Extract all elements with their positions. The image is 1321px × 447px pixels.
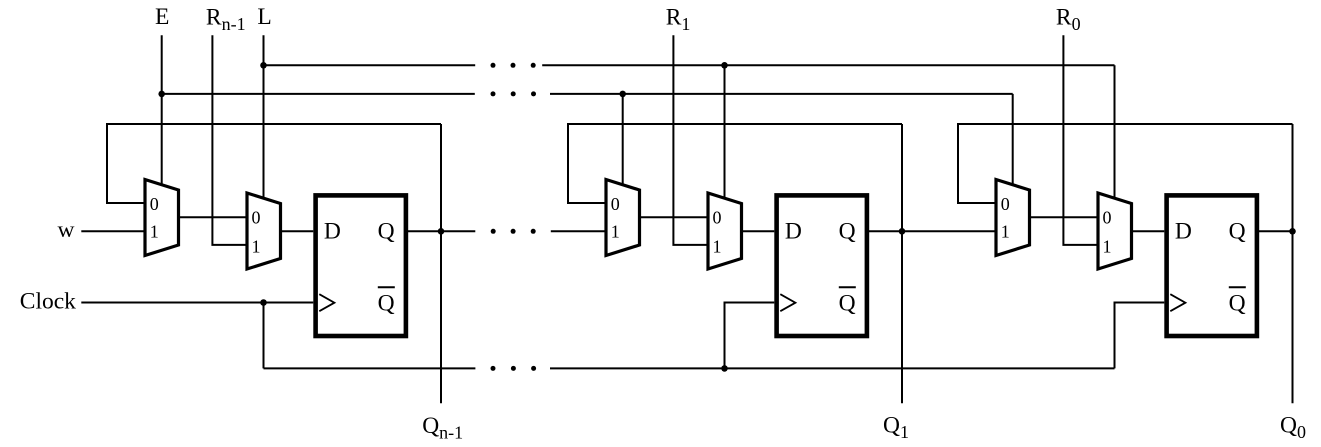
wire load-mux output to D stage3 (Q_0) bbox=[1132, 230, 1165, 232]
wire enable-mux output to load-mux stage1 (Q_n-1) bbox=[179, 216, 248, 218]
svg-text:0: 0 bbox=[150, 194, 159, 214]
svg-text:1: 1 bbox=[611, 221, 620, 241]
svg-text:D: D bbox=[324, 219, 341, 245]
wire Clock drop to distribution bbox=[263, 303, 265, 369]
svg-text:Q: Q bbox=[378, 291, 395, 317]
wire load-mux output to D stage2 (Q_1) bbox=[742, 230, 775, 232]
wire L bus segment right bbox=[542, 64, 1114, 66]
svg-text:D: D bbox=[1175, 219, 1192, 245]
D flip-flop stage2 (Q_1) bbox=[777, 195, 867, 336]
clock chevron stage3 (Q_0) bbox=[1170, 294, 1185, 311]
wire E bus drop to mux select stage3 bbox=[1012, 94, 1014, 186]
mux load stage3 (Q_0) bbox=[1098, 193, 1132, 269]
wire Q output vertical stage3 (Q_0) bbox=[1292, 124, 1294, 403]
wire R vertical stage3 (Q_0) bbox=[1063, 35, 1098, 245]
wire L bus drop to mux select stage3 bbox=[1114, 65, 1116, 199]
wire clock distribution right bbox=[550, 367, 1115, 369]
wire E bus segment left bbox=[162, 93, 475, 95]
svg-text:1: 1 bbox=[1001, 221, 1010, 241]
wire E input stub bbox=[161, 35, 163, 186]
D flip-flop stage1 (Q_n-1) bbox=[316, 195, 406, 336]
wire L bus segment left bbox=[264, 64, 476, 66]
wire clock riser stage3 bbox=[1115, 303, 1165, 369]
svg-text:1: 1 bbox=[150, 221, 159, 241]
node L junction on L bus bbox=[260, 62, 267, 69]
svg-text:0: 0 bbox=[1103, 208, 1112, 228]
svg-text:0: 0 bbox=[713, 208, 722, 228]
ellipsis dots E bus bbox=[491, 91, 496, 96]
node E bus to stage2 select bbox=[619, 91, 626, 98]
node L bus to stage2 select bbox=[721, 62, 728, 69]
wire enable-mux output to load-mux stage2 (Q_1) bbox=[640, 216, 709, 218]
wire w input bbox=[81, 230, 145, 232]
wire clock distribution left bbox=[264, 367, 476, 369]
wire clock riser stage2 bbox=[725, 303, 775, 369]
wire L bus drop to mux select stage2 bbox=[724, 65, 726, 199]
ellipsis dots Q chain bbox=[491, 229, 496, 234]
wire enable-mux output to load-mux stage3 (Q_0) bbox=[1030, 216, 1099, 218]
wire Clock input bbox=[81, 302, 313, 304]
mux load stage1 (Q_n-1) bbox=[247, 193, 281, 269]
svg-text:0: 0 bbox=[1001, 194, 1010, 214]
svg-text:E: E bbox=[155, 4, 169, 30]
overbar of Qbar stage1 (Q_n-1) bbox=[378, 286, 395, 288]
wire Q output stage2 (Q_1) bbox=[867, 230, 996, 232]
wire R vertical stage2 (Q_1) bbox=[673, 35, 708, 245]
wire feedback from Q to mux 0 input stage2 (Q_1) bbox=[568, 124, 902, 203]
mux load stage2 (Q_1) bbox=[708, 193, 742, 269]
wire E bus segment right bbox=[550, 93, 1013, 95]
wire Q output vertical stage1 (Q_n-1) bbox=[440, 124, 442, 403]
wire E bus drop to mux select stage2 bbox=[622, 94, 624, 186]
svg-text:1: 1 bbox=[252, 237, 261, 257]
svg-text:0: 0 bbox=[611, 194, 620, 214]
overbar of Qbar stage3 (Q_0) bbox=[1229, 286, 1246, 288]
svg-text:Q: Q bbox=[1229, 291, 1246, 317]
svg-text:0: 0 bbox=[252, 208, 261, 228]
wire feedback from Q to mux 0 input stage3 (Q_0) bbox=[958, 124, 1293, 203]
wire Q output stage3 (Q_0) bbox=[1257, 230, 1292, 232]
wire Q chain gap right end bbox=[551, 230, 606, 232]
svg-text:Q: Q bbox=[839, 291, 856, 317]
svg-text:1: 1 bbox=[713, 237, 722, 257]
wire R_n-1 vertical bbox=[212, 35, 247, 245]
mux shift/enable stage2 (Q_1) bbox=[606, 180, 640, 256]
svg-text:Q: Q bbox=[1229, 219, 1246, 245]
mux shift/enable stage3 (Q_0) bbox=[996, 180, 1030, 256]
clock chevron stage1 (Q_n-1) bbox=[319, 294, 334, 311]
svg-text:Q: Q bbox=[839, 219, 856, 245]
D flip-flop stage3 (Q_0) bbox=[1167, 195, 1257, 336]
svg-text:1: 1 bbox=[1103, 237, 1112, 257]
wire Q output vertical stage2 (Q_1) bbox=[901, 124, 903, 403]
svg-text:Clock: Clock bbox=[20, 288, 76, 314]
svg-text:w: w bbox=[58, 217, 75, 243]
wire Q output stage1 (Q_n-1) bbox=[406, 230, 475, 232]
node Q output junction stage1 (Q_n-1) bbox=[438, 228, 445, 235]
wire L input stub bbox=[263, 35, 265, 199]
overbar of Qbar stage2 (Q_1) bbox=[839, 286, 856, 288]
svg-text:D: D bbox=[785, 219, 802, 245]
node clock to stage2 riser bbox=[721, 365, 728, 372]
ellipsis dots clock line bbox=[491, 366, 496, 371]
node Q output junction stage3 (Q_0) bbox=[1289, 228, 1296, 235]
svg-text:L: L bbox=[257, 4, 271, 30]
wire load-mux output to D stage1 (Q_n-1) bbox=[281, 230, 314, 232]
svg-text:Q: Q bbox=[378, 219, 395, 245]
node E junction on E bus bbox=[158, 91, 165, 98]
mux shift/enable stage1 (Q_n-1) bbox=[145, 180, 179, 256]
wire feedback from Q to mux 0 input stage1 (Q_n-1) bbox=[107, 124, 441, 203]
clock chevron stage2 (Q_1) bbox=[780, 294, 795, 311]
node Clock junction bbox=[260, 299, 267, 306]
node Q output junction stage2 (Q_1) bbox=[899, 228, 906, 235]
ellipsis dots L bus bbox=[491, 63, 496, 68]
